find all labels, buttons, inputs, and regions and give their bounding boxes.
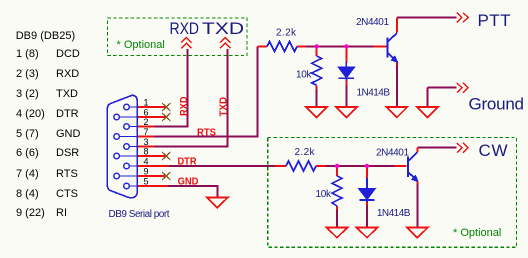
svg-text:DB9 Serial port: DB9 Serial port <box>109 209 170 220</box>
svg-text:5 (7): 5 (7) <box>16 128 39 140</box>
svg-text:RTS: RTS <box>56 168 78 180</box>
svg-text:3 (2): 3 (2) <box>16 88 39 100</box>
svg-text:DTR: DTR <box>56 108 79 120</box>
svg-text:CW: CW <box>479 141 508 160</box>
svg-text:2N4401: 2N4401 <box>376 148 409 159</box>
svg-text:10k: 10k <box>316 189 333 200</box>
svg-text:2.2k: 2.2k <box>276 28 297 39</box>
svg-text:GND: GND <box>56 128 81 140</box>
svg-text:2N4401: 2N4401 <box>356 17 389 28</box>
svg-text:TXD: TXD <box>56 88 78 100</box>
svg-text:1N414B: 1N414B <box>377 208 411 219</box>
svg-text:6 (6): 6 (6) <box>16 147 39 159</box>
svg-text:4 (20): 4 (20) <box>16 108 45 120</box>
svg-text:TXD: TXD <box>202 19 244 38</box>
svg-text:DB9 (DB25): DB9 (DB25) <box>16 30 75 42</box>
svg-text:9 (22): 9 (22) <box>16 207 45 219</box>
svg-text:PTT: PTT <box>478 11 511 30</box>
svg-text:10k: 10k <box>296 69 313 80</box>
svg-text:DCD: DCD <box>56 48 80 60</box>
svg-text:RXD: RXD <box>56 68 79 80</box>
svg-text:1N414B: 1N414B <box>357 88 391 99</box>
svg-text:CTS: CTS <box>56 188 78 200</box>
svg-text:1 (8): 1 (8) <box>16 48 39 60</box>
svg-text:2.2k: 2.2k <box>295 147 316 158</box>
svg-text:RXD: RXD <box>170 19 200 38</box>
svg-text:* Optional: * Optional <box>453 227 501 239</box>
svg-text:DSR: DSR <box>56 147 79 159</box>
svg-text:7 (4): 7 (4) <box>16 168 39 180</box>
svg-text:RI: RI <box>56 207 67 219</box>
svg-text:8 (4): 8 (4) <box>16 188 39 200</box>
svg-text:2 (3): 2 (3) <box>16 68 39 80</box>
svg-text:Ground: Ground <box>469 95 525 114</box>
svg-text:* Optional: * Optional <box>117 39 165 51</box>
